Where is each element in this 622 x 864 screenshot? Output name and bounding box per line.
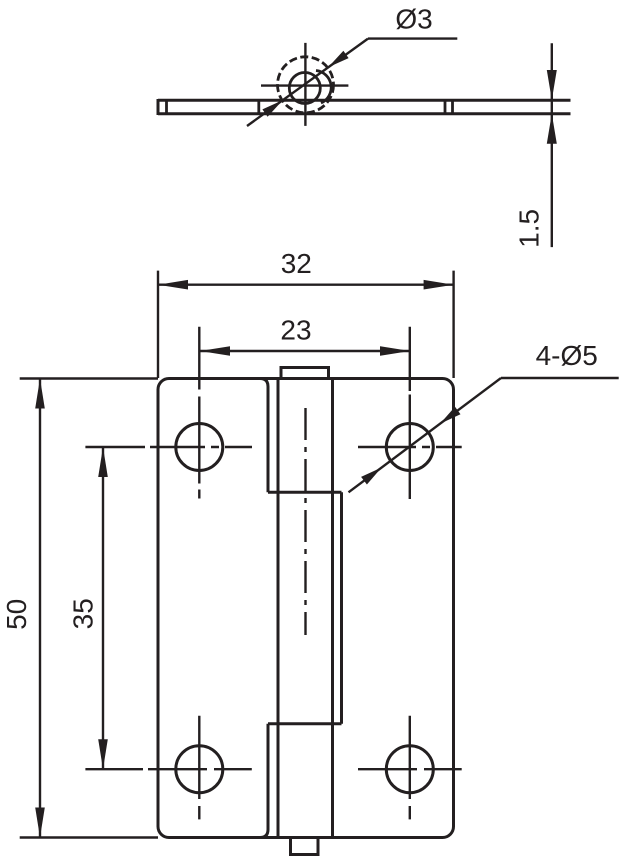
arrow 1.5 lower (pointing up) xyxy=(547,114,557,144)
front view: knuckle step line upper xyxy=(268,491,342,494)
front view: pin top cap xyxy=(281,368,329,379)
top view: leaf edge tick left xyxy=(165,100,168,114)
top view: knuckle outer circle (dashed) xyxy=(278,57,334,113)
arrow 32 right xyxy=(424,280,454,290)
crosshair horizontal bottom-right hole xyxy=(358,768,462,770)
front view: right leaf cutout edge xyxy=(340,492,343,724)
top view: center line vertical xyxy=(304,43,306,126)
svg-text:32: 32 xyxy=(281,248,312,279)
svg-text:4-Ø5: 4-Ø5 xyxy=(536,340,598,371)
leader line 4-Ø5 diagonal xyxy=(349,378,502,492)
crosshair horizontal top-right hole xyxy=(358,446,462,448)
front view: left leaf cutout edge lower xyxy=(260,724,268,838)
dimension 32 ext line right xyxy=(452,271,454,378)
top view: pin hole circle xyxy=(289,73,320,104)
arrow on 4-Ø5 leader upper xyxy=(440,407,461,424)
dimension 50 line xyxy=(39,379,41,838)
arrow on 4-Ø5 leader lower xyxy=(361,468,382,485)
svg-text:Ø3: Ø3 xyxy=(395,4,432,35)
svg-text:50: 50 xyxy=(1,599,32,630)
dimension 1.5 line xyxy=(551,43,553,247)
top view: hinge leaf bar bottom edge xyxy=(158,112,571,115)
arrow 23 right xyxy=(380,346,410,356)
top view: leaf edge tick right A xyxy=(444,100,447,114)
front view: left leaf cutout edge upper xyxy=(260,379,268,493)
arrow 1.5 upper (pointing down) xyxy=(547,70,557,100)
front view: knuckle step line lower xyxy=(268,722,342,725)
front view: knuckle column left line xyxy=(277,379,280,838)
arrow 50 top xyxy=(35,379,45,409)
crosshair vertical bottom-left hole xyxy=(198,716,200,820)
top view: leaf curl arc xyxy=(316,71,331,104)
crosshair vertical top-left hole / ext line 23 left xyxy=(198,327,200,499)
top view: leaf edge tick right B xyxy=(451,100,454,114)
front view: pin axis center line xyxy=(304,408,306,635)
dimension 35 line xyxy=(102,447,104,769)
dimension 32 line xyxy=(158,284,454,286)
top view: leaf edge tick mid xyxy=(257,100,260,114)
hole bottom-left xyxy=(176,746,223,793)
dimension 23 line xyxy=(200,350,410,352)
top view: bar left end cap xyxy=(157,99,160,115)
crosshair horizontal bottom-left hole xyxy=(85,768,251,770)
front view: pin bottom cap xyxy=(291,838,319,855)
leader line 4-Ø5 horizontal xyxy=(501,377,619,379)
svg-text:23: 23 xyxy=(280,315,311,346)
arrow 23 left xyxy=(200,346,230,356)
front view: hinge plate outline xyxy=(158,379,454,838)
svg-text:1.5: 1.5 xyxy=(513,209,544,248)
leader line for Ø3 (horizontal) xyxy=(368,37,457,39)
svg-text:35: 35 xyxy=(68,598,99,629)
arrow on Ø3 leader lower xyxy=(262,100,282,117)
arrow on Ø3 leader upper xyxy=(328,51,348,68)
hole bottom-right xyxy=(386,746,433,793)
dimension 32 ext line left xyxy=(157,271,159,378)
crosshair vertical bottom-right hole xyxy=(409,716,411,820)
crosshair vertical top-right hole / ext line 23 right xyxy=(409,327,411,499)
hole top-left xyxy=(176,424,223,471)
arrow 32 left xyxy=(158,280,188,290)
arrow 35 top xyxy=(98,447,108,477)
crosshair horizontal top-left hole xyxy=(85,446,252,448)
top view: hinge leaf bar top edge xyxy=(158,99,571,102)
leader line for Ø3 (diagonal) xyxy=(247,39,368,126)
dimension 50 ext line bottom xyxy=(20,836,158,838)
front view: knuckle column right line xyxy=(331,379,334,838)
dimension 50 ext line top xyxy=(20,377,158,379)
hole top-right xyxy=(386,424,433,471)
arrow 35 bottom xyxy=(98,739,108,769)
top view: center line horizontal xyxy=(261,84,348,86)
arrow 50 bottom xyxy=(35,808,45,838)
